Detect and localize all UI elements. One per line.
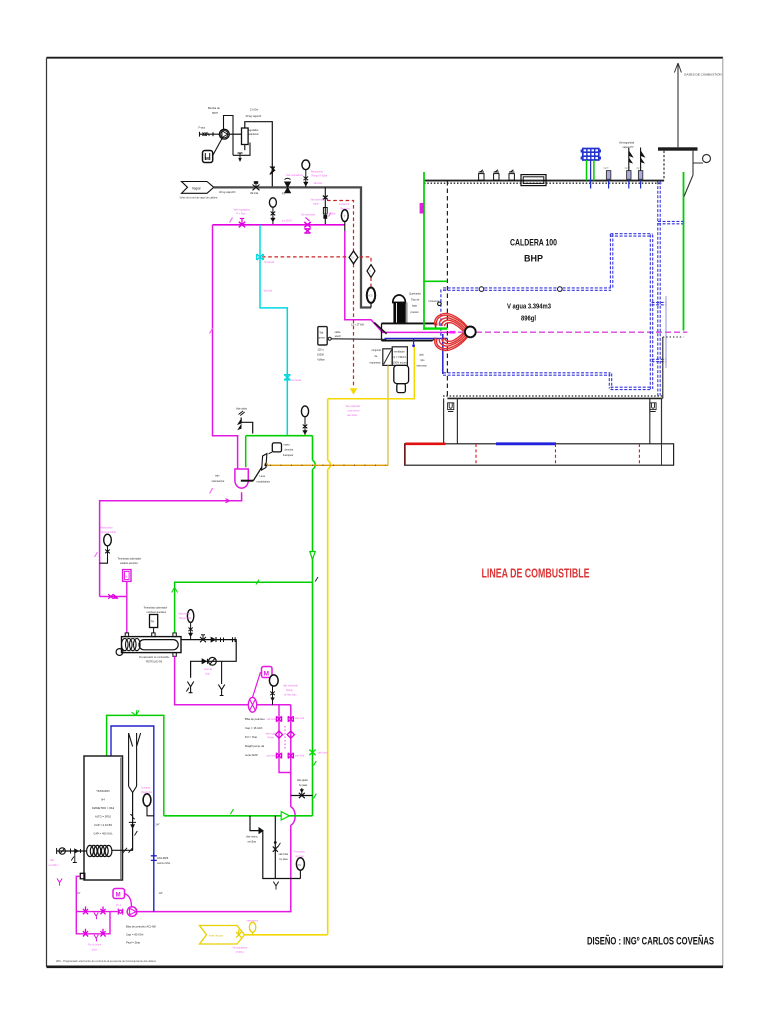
union F1-1 bbox=[118, 909, 122, 915]
svg-text:Valv solenoide: Valv solenoide bbox=[283, 686, 298, 688]
svg-text:de linea: de linea bbox=[296, 856, 305, 858]
svg-text:Cap = 16 Gl/h: Cap = 16 Gl/h bbox=[245, 726, 263, 730]
GSM union on blue bbox=[151, 854, 157, 863]
boiler bottom shell bbox=[443, 337, 684, 398]
water level lines (blue dashed) upper bbox=[443, 288, 611, 290]
svg-text:NC: NC bbox=[351, 257, 355, 260]
svg-text:valv bola: valv bola bbox=[267, 756, 277, 758]
pressure gauge PI on header bbox=[302, 160, 310, 187]
svg-text:corte previo: corte previo bbox=[348, 410, 361, 413]
svg-text:Tipo de: Tipo de bbox=[411, 299, 420, 302]
svg-text:valv bola: valv bola bbox=[279, 853, 289, 856]
boiler left wall green bbox=[423, 172, 425, 330]
svg-text:10000: 10000 bbox=[317, 354, 325, 357]
svg-text:a la bba: a la bba bbox=[327, 213, 336, 216]
steam header line bbox=[214, 187, 371, 307]
svg-text:TK-1: TK-1 bbox=[116, 905, 122, 907]
burner body bbox=[374, 323, 435, 341]
sight glass bbox=[202, 657, 216, 665]
svg-text:Leva: Leva bbox=[260, 475, 266, 478]
svg-text:Bba de petroleo: Bba de petroleo bbox=[245, 717, 265, 721]
svg-text:interrump: interrump bbox=[417, 365, 428, 368]
instrument over green line bbox=[301, 406, 308, 436]
svg-text:BHP: BHP bbox=[524, 254, 543, 264]
svg-text:junto: junto bbox=[91, 949, 98, 952]
tank steam coil bbox=[87, 845, 112, 856]
svg-text:TK/DIARIO: TK/DIARIO bbox=[96, 789, 109, 793]
day tank blue jacket bbox=[111, 726, 154, 912]
svg-text:M: M bbox=[205, 156, 209, 161]
steam stacks on top bbox=[479, 170, 515, 180]
coil inlet line bbox=[57, 848, 87, 863]
svg-text:Rango 0-10bar: Rango 0-10bar bbox=[100, 531, 116, 534]
svg-text:10Gl-9606: 10Gl-9606 bbox=[157, 857, 169, 860]
svg-text:Termostato calentador: Termostato calentador bbox=[118, 558, 142, 561]
svg-text:vapor: vapor bbox=[313, 203, 319, 206]
magenta drop to burner bbox=[345, 231, 450, 332]
svg-text:valv bola: valv bola bbox=[267, 719, 277, 721]
svg-text:No break: No break bbox=[292, 379, 303, 382]
svg-text:Contactor: Contactor bbox=[339, 203, 350, 206]
svg-text:N4: N4 bbox=[101, 798, 105, 802]
Y strainer 1 bbox=[186, 682, 193, 693]
boiler right wall green bbox=[683, 172, 685, 331]
filter with X bbox=[248, 697, 256, 712]
green pilot line horizontal bbox=[246, 435, 313, 437]
photocell dashed vertical bbox=[440, 290, 442, 337]
pump 2 label text bbox=[245, 717, 265, 757]
gauge on return leg bbox=[100, 534, 112, 563]
line thermostat TH bbox=[296, 858, 304, 879]
svg-text:moduladora: moduladora bbox=[257, 481, 271, 484]
lower water line bbox=[443, 373, 652, 390]
svg-text:valv bola: valv bola bbox=[295, 718, 305, 720]
svg-text:Cap = 80 Gl/h: Cap = 80 Gl/h bbox=[126, 933, 144, 937]
svg-text:Valv globo: Valv globo bbox=[297, 779, 309, 782]
svg-text:40 kg vapor/hr: 40 kg vapor/hr bbox=[219, 190, 236, 194]
firebox green lines bbox=[424, 280, 447, 282]
svg-text:GASES DE COMBUSTION: GASES DE COMBUSTION bbox=[684, 73, 722, 77]
feedwater pump circle bbox=[219, 129, 241, 139]
svg-text:40 kg vapor/h: 40 kg vapor/h bbox=[246, 114, 262, 118]
fuel feed magenta line y225 bbox=[213, 224, 345, 226]
cyan solenoid valve bbox=[257, 254, 291, 380]
photocell line blue bbox=[385, 334, 448, 374]
svg-text:M: M bbox=[116, 893, 121, 899]
orange cam signal line bbox=[268, 464, 388, 466]
svg-text:volumetrica: volumetrica bbox=[212, 480, 225, 483]
svg-text:de libre flujo: de libre flujo bbox=[284, 694, 297, 697]
feedwater pump B agua: labels bbox=[199, 106, 262, 136]
svg-text:Viene de la red de vapor de ca: Viene de la red de vapor de caldera bbox=[180, 196, 219, 199]
green fuel supply horizontal bbox=[164, 815, 313, 817]
svg-text:Valv retenc: Valv retenc bbox=[246, 836, 259, 839]
solenoid diamond NC bbox=[349, 251, 358, 264]
fuel return magenta left leg bbox=[213, 225, 238, 469]
spare parts labels bbox=[370, 349, 382, 365]
svg-text:visor de: visor de bbox=[204, 668, 213, 671]
valves on outlet bbox=[200, 635, 235, 642]
svg-text:TH: TH bbox=[298, 863, 302, 867]
svg-text:M: M bbox=[264, 671, 269, 678]
svg-text:admision: admision bbox=[249, 132, 260, 136]
svg-text:LINEA DE COMBUSTIBLE: LINEA DE COMBUSTIBLE bbox=[482, 566, 590, 581]
volumetric valve dome bbox=[235, 469, 253, 488]
check valve branch bbox=[250, 816, 300, 879]
gas banner yellow bbox=[200, 926, 328, 945]
svg-text:repuestos: repuestos bbox=[370, 362, 382, 365]
svg-text:Valv solenoide: Valv solenoide bbox=[346, 406, 361, 408]
svg-text:vap 2": vap 2" bbox=[636, 168, 642, 170]
svg-text:valv bola: valv bola bbox=[295, 756, 305, 758]
svg-text:valv bola: valv bola bbox=[318, 752, 328, 755]
svg-text:Psal = 2bar: Psal = 2bar bbox=[126, 941, 140, 945]
svg-text:set 2bar: set 2bar bbox=[248, 841, 257, 844]
svg-text:flujo: flujo bbox=[206, 674, 211, 676]
boiler front dashed wall bbox=[446, 181, 448, 398]
solenoid drop to fuel line bbox=[323, 187, 328, 224]
svg-text:Magfil pump da: Magfil pump da bbox=[245, 744, 265, 748]
svg-text:Bomba de: Bomba de bbox=[208, 106, 220, 110]
svg-text:Bba de petroleo ACI-N8: Bba de petroleo ACI-N8 bbox=[126, 925, 156, 929]
svg-text:DIAMETRO = 36ul: DIAMETRO = 36ul bbox=[92, 806, 115, 810]
svg-text:derecha: derecha bbox=[285, 449, 294, 452]
green ball valve bbox=[309, 750, 315, 756]
economizer hatch block bbox=[582, 149, 600, 161]
modulating cam lever bbox=[253, 443, 281, 481]
svg-text:mano: mano bbox=[284, 444, 291, 447]
svg-text:P=bar: P=bar bbox=[268, 737, 274, 740]
svg-text:Valv reguladora: Valv reguladora bbox=[234, 209, 251, 212]
steam riser dashed box bbox=[610, 182, 683, 396]
svg-text:Vapor: Vapor bbox=[192, 186, 202, 190]
svg-text:ALTO = 2P10: ALTO = 2P10 bbox=[95, 815, 112, 819]
pump labels bbox=[126, 925, 156, 945]
green main vertical bbox=[313, 436, 316, 816]
Y strainer 2 bbox=[218, 661, 224, 695]
svg-text:Pd = 7bar: Pd = 7bar bbox=[245, 735, 257, 739]
svg-text:loc 160°C: loc 160°C bbox=[282, 220, 293, 223]
feedwater suction line bbox=[199, 132, 220, 137]
svg-text:CAP = 450 GAL: CAP = 450 GAL bbox=[93, 832, 113, 836]
fuel line across boiler (dashed magenta) bbox=[449, 331, 687, 333]
svg-text:P = 3bar: P = 3bar bbox=[237, 213, 246, 216]
solenoid motor valve bbox=[252, 667, 278, 705]
blower body + motor bbox=[394, 365, 409, 392]
chimney bbox=[658, 63, 711, 197]
manhole bbox=[521, 175, 546, 186]
yellow regulator valve bbox=[236, 922, 256, 937]
svg-text:manometro: manometro bbox=[247, 920, 259, 923]
svg-text:Val bola: Val bola bbox=[250, 193, 259, 195]
svg-text:vapor 2½": vapor 2½" bbox=[623, 145, 634, 149]
svg-text:T: T bbox=[344, 215, 346, 219]
svg-text:220 o: 220 o bbox=[318, 349, 325, 352]
heater vessel bbox=[116, 633, 181, 656]
svg-text:896gl: 896gl bbox=[521, 316, 536, 323]
red dashed control loop bbox=[262, 201, 371, 386]
motor M bbox=[203, 138, 223, 163]
flame arcs bbox=[435, 313, 468, 350]
damper box bbox=[383, 349, 392, 366]
svg-text:valv: valv bbox=[215, 475, 220, 478]
green flow arrow bbox=[310, 552, 315, 560]
svg-text:Voltios: Voltios bbox=[317, 359, 325, 362]
solenoid diamond 2 bbox=[367, 265, 375, 278]
svg-text:baja: baja bbox=[412, 305, 417, 308]
burner dome bbox=[393, 295, 408, 323]
svg-text:CAP = 2.19 B3: CAP = 2.19 B3 bbox=[94, 823, 112, 827]
svg-text:MOD: MOD bbox=[368, 296, 374, 298]
globe valve on header bbox=[253, 182, 260, 191]
svg-text:F-aux: F-aux bbox=[199, 126, 206, 130]
gas pilot arrow yellow bbox=[350, 388, 358, 395]
tank suction nozzle bbox=[80, 873, 85, 879]
svg-text:N: N bbox=[369, 270, 371, 273]
flame target ring bbox=[465, 327, 476, 338]
svg-text:serie ADR: serie ADR bbox=[245, 753, 258, 757]
base platform bbox=[405, 444, 674, 465]
svg-text:Val bola: Val bola bbox=[264, 290, 273, 293]
svg-text:Fotocelula: Fotocelula bbox=[429, 300, 440, 303]
svg-text:Rango bar: Rango bar bbox=[142, 791, 153, 794]
svg-text:Termostato: Termostato bbox=[294, 851, 306, 854]
svg-text:Manometro: Manometro bbox=[101, 527, 114, 530]
svg-text:P=3Psi: P=3Psi bbox=[236, 952, 244, 954]
svg-text:PETROLEO R6: PETROLEO R6 bbox=[146, 662, 163, 664]
svg-text:Quemador: Quemador bbox=[409, 293, 421, 296]
border frame bbox=[47, 58, 724, 967]
svg-text:ventilador: ventilador bbox=[394, 351, 405, 354]
svg-text:TH: TH bbox=[124, 576, 127, 579]
magenta return to heater loop bbox=[100, 492, 242, 596]
coil outlet + vent funnel bbox=[112, 733, 141, 853]
day tank green jacket bbox=[107, 710, 164, 816]
fuel suction magenta from heater bbox=[175, 656, 291, 705]
svg-text:DISEÑO : INGº CARLOS COVEÑAS: DISEÑO : INGº CARLOS COVEÑAS bbox=[587, 935, 714, 948]
bright spot on fuel line bbox=[450, 331, 456, 334]
svg-text:Manometro: Manometro bbox=[311, 171, 324, 174]
thermostat box TH magenta bbox=[100, 570, 131, 633]
svg-text:12 + 2T kW: 12 + 2T kW bbox=[351, 324, 364, 327]
svg-text:V agua 3.394m3: V agua 3.394m3 bbox=[507, 302, 551, 311]
svg-text:electr: electr bbox=[335, 335, 341, 338]
svg-text:jack: jack bbox=[419, 354, 425, 357]
svg-text:cable: cable bbox=[335, 331, 342, 334]
svg-text:franquear: franquear bbox=[283, 454, 293, 457]
svg-text:Val reguladora: Val reguladora bbox=[233, 947, 248, 950]
instrument stack mid header bbox=[269, 198, 276, 225]
bypass ball valve branch bbox=[273, 816, 281, 879]
svg-text:regulador: regulador bbox=[248, 128, 259, 132]
svg-text:Tab: Tab bbox=[319, 332, 324, 335]
svg-text:conjunto: conjunto bbox=[372, 349, 382, 352]
boiler outline top bbox=[424, 181, 664, 184]
svg-text:TH: TH bbox=[151, 621, 155, 624]
svg-text:100% exceso: 100% exceso bbox=[393, 362, 409, 365]
boiler legs bbox=[444, 398, 662, 443]
anchor feet bbox=[448, 403, 657, 412]
green control line to heater bbox=[172, 580, 313, 633]
svg-text:Val seguridad: Val seguridad bbox=[619, 142, 635, 145]
gauge at heater bbox=[187, 610, 193, 640]
fuel pump bbox=[0, 0, 137, 916]
svg-text:linea de gas: linea de gas bbox=[209, 934, 224, 938]
yellow pneumatic lines bbox=[328, 347, 415, 935]
modulating motor MOD bbox=[367, 288, 375, 308]
admission control valve bbox=[242, 122, 273, 187]
hatch block risers bbox=[587, 160, 594, 189]
svg-text:Val solenoide: Val solenoide bbox=[301, 214, 316, 217]
svg-text:agua: agua bbox=[212, 112, 218, 115]
svg-text:Manometro: Manometro bbox=[179, 613, 191, 616]
svg-text:1/2": 1/2" bbox=[159, 891, 164, 895]
check valve F1 on header bbox=[285, 178, 291, 193]
svg-text:No break: No break bbox=[265, 261, 276, 264]
pump recirculation loop bbox=[224, 116, 251, 162]
svg-text:press: press bbox=[319, 337, 326, 340]
svg-text:Q = 730cfm: Q = 730cfm bbox=[393, 356, 406, 359]
suction valves bbox=[83, 907, 106, 942]
svg-text:Val bola: Val bola bbox=[314, 182, 323, 185]
cyan no-break line bbox=[260, 225, 287, 436]
svg-text:valv piloto: valv piloto bbox=[347, 414, 358, 417]
svg-text:1½ Din: 1½ Din bbox=[250, 108, 259, 112]
svg-text:Termostato calentador: Termostato calentador bbox=[144, 607, 168, 610]
valve manifold double bbox=[137, 705, 296, 912]
magenta control valve assembly x307 bbox=[304, 218, 310, 234]
svg-text:combust operativo: combust operativo bbox=[147, 611, 167, 614]
transformer box Tab press bbox=[318, 327, 387, 345]
thermostat TH black box bbox=[150, 615, 158, 633]
vapor banner arrow bbox=[180, 182, 219, 200]
svg-text:Rango 0-10: Rango 0-10 bbox=[179, 618, 192, 620]
svg-text:tipo: tipo bbox=[421, 359, 426, 362]
suction piping magenta bbox=[76, 876, 117, 934]
svg-text:vap 2": vap 2" bbox=[625, 168, 631, 170]
svg-text:Contador: Contador bbox=[141, 787, 151, 790]
svg-text:Por el chorro: Por el chorro bbox=[88, 944, 102, 947]
relief valve line bbox=[238, 411, 253, 434]
svg-text:estatico electrico: estatico electrico bbox=[120, 562, 138, 565]
black bypass globe valve line bbox=[291, 788, 313, 798]
svg-text:Rango 0-10bar: Rango 0-10bar bbox=[312, 175, 328, 178]
svg-text:WIC - Programador electronico: WIC - Programador electronico de control… bbox=[56, 959, 156, 963]
svg-text:Valv alivio: Valv alivio bbox=[236, 408, 248, 411]
svg-text:vap 1": vap 1" bbox=[604, 168, 610, 170]
svg-text:Rango: Rango bbox=[286, 690, 293, 692]
level gauge near funnel bbox=[143, 794, 154, 816]
day tank bbox=[84, 756, 123, 880]
svg-text:retorno GNL: retorno GNL bbox=[157, 862, 171, 865]
svg-text:by pass: by pass bbox=[280, 858, 289, 861]
svg-text:by pass: by pass bbox=[299, 784, 308, 787]
ventilador box bbox=[392, 347, 407, 366]
svg-text:Val solenoide: Val solenoide bbox=[311, 199, 326, 202]
svg-text:presion: presion bbox=[411, 311, 420, 314]
svg-text:set 150 in: set 150 in bbox=[49, 864, 60, 867]
thermometer T bbox=[341, 210, 348, 231]
svg-text:CALDERA 100: CALDERA 100 bbox=[510, 238, 557, 249]
svg-text:Valv reguladora: Valv reguladora bbox=[286, 174, 303, 177]
svg-text:Precalentador de combustible: Precalentador de combustible bbox=[139, 656, 170, 659]
burner labels bbox=[409, 293, 421, 315]
valves on cross line bbox=[108, 594, 118, 599]
valve on riser bbox=[270, 167, 275, 175]
magenta marker on wall bbox=[420, 203, 424, 214]
svg-text:3/4": 3/4" bbox=[156, 824, 160, 827]
svg-text:Valv regul: Valv regul bbox=[266, 733, 277, 736]
magenta regulator valve bbox=[239, 219, 245, 228]
heater outlet black line bbox=[181, 640, 236, 678]
